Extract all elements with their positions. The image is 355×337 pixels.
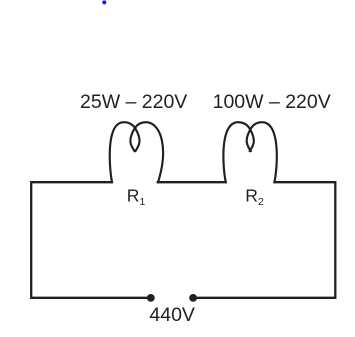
- svg-text:25W – 220V: 25W – 220V: [80, 91, 187, 113]
- wire top-middle segment: [157, 181, 227, 183]
- terminal node right: [189, 294, 197, 302]
- lamp R2 right loop: [247, 122, 277, 183]
- lamp R2 left loop: [223, 122, 253, 183]
- svg-text:R1: R1: [127, 186, 146, 208]
- lamp R1 right loop: [130, 122, 163, 183]
- wire right run: top-right segment, right side, bottom-right segment: [193, 182, 335, 298]
- blue dot artifact: [102, 0, 106, 4]
- svg-text:R2: R2: [245, 186, 264, 208]
- svg-text:100W – 220V: 100W – 220V: [213, 91, 331, 113]
- svg-text:440V: 440V: [149, 304, 195, 326]
- terminal node left: [147, 294, 155, 302]
- lamp R1 left loop: [110, 122, 140, 183]
- wire left run: top-left segment, left side, bottom-left segment: [31, 182, 151, 298]
